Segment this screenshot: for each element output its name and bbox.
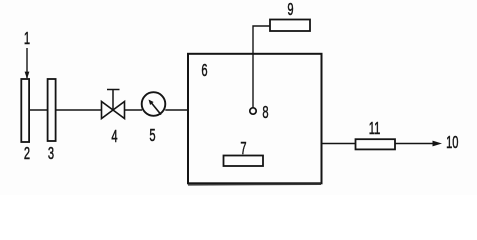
valve V4 (102, 90, 125, 119)
boat 7 (224, 156, 264, 167)
svg-text:2: 2 (24, 143, 30, 163)
svg-text:3: 3 (48, 143, 54, 163)
svg-text:4: 4 (111, 126, 117, 146)
label 2 (24, 143, 30, 163)
label 6 (201, 60, 207, 80)
label 3 (48, 143, 54, 163)
wire valve-gauge (125, 109, 143, 111)
label 8 (262, 102, 268, 122)
wire: inlet arrow into column 2 (25, 48, 30, 79)
label 4 (111, 126, 117, 146)
label 9 (287, 0, 293, 20)
label 11 (369, 118, 381, 138)
svg-text:6: 6 (201, 60, 207, 80)
column 2 (21, 79, 29, 142)
label 5 (149, 125, 155, 145)
label 7 (240, 138, 246, 158)
svg-text:8: 8 (262, 102, 268, 122)
heater 9 (270, 20, 310, 32)
svg-text:11: 11 (369, 118, 381, 138)
chamber bottom edge (thicker scanned stroke) (188, 183, 321, 186)
wire 9 to probe 8 (253, 26, 270, 108)
wire gauge-chamber (165, 109, 188, 111)
svg-text:1: 1 (24, 28, 30, 48)
svg-text:5: 5 (149, 125, 155, 145)
wire 3-valve (56, 109, 102, 111)
filter 11 (356, 139, 396, 149)
svg-text:10: 10 (446, 132, 458, 152)
gauge G5 (142, 92, 166, 116)
wire chamber-11 (322, 143, 357, 145)
label 10 (446, 132, 458, 152)
column 3 (48, 79, 56, 141)
svg-text:9: 9 (287, 0, 293, 20)
svg-text:7: 7 (240, 138, 246, 158)
wire 2-3 (29, 109, 48, 111)
probe tip 8 (250, 108, 256, 114)
chamber 6 (188, 54, 322, 184)
wire 11-outlet with arrow 10 (395, 141, 442, 147)
node 1 (inlet label) (24, 28, 30, 48)
